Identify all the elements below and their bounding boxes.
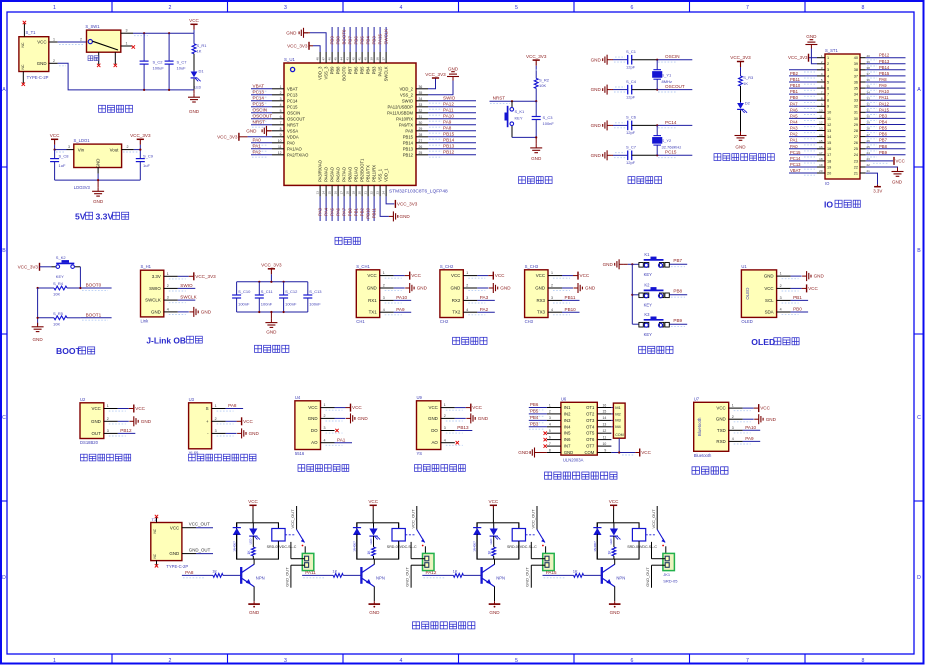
power VCC (relay 1) bbox=[249, 504, 256, 506]
svg-text:SWCLK: SWCLK bbox=[180, 295, 197, 300]
junction bbox=[139, 149, 141, 151]
wire terminal bottom (GND_OUT) bbox=[652, 564, 666, 566]
svg-text:SRD-05VDC-SL-C: SRD-05VDC-SL-C bbox=[387, 545, 417, 549]
svg-text:NRST: NRST bbox=[253, 120, 266, 125]
svg-text:BOOT1: BOOT1 bbox=[86, 312, 102, 317]
svg-text:1: 1 bbox=[466, 271, 468, 275]
svg-text:VCC_3V3: VCC_3V3 bbox=[130, 133, 151, 138]
svg-text:OT7: OT7 bbox=[586, 444, 595, 449]
ground VSS_2 pin35 bbox=[428, 81, 453, 95]
svg-text:SWCLK: SWCLK bbox=[384, 66, 389, 81]
svg-text:13: 13 bbox=[316, 191, 320, 195]
svg-text:PA3: PA3 bbox=[790, 126, 798, 131]
svg-text:VCC: VCC bbox=[451, 273, 460, 278]
power VCC (relay 4) bbox=[610, 504, 617, 506]
svg-text:VCC_OUT: VCC_OUT bbox=[651, 509, 656, 529]
svg-text:D: D bbox=[917, 575, 921, 581]
ground (relay 3) bbox=[494, 601, 496, 604]
svg-text:PA3: PA3 bbox=[318, 207, 323, 216]
svg-text:SWCLK: SWCLK bbox=[384, 29, 389, 45]
svg-text:12: 12 bbox=[603, 429, 607, 433]
svg-text:PA11/USBDM: PA11/USBDM bbox=[387, 110, 413, 115]
svg-text:32: 32 bbox=[854, 105, 858, 109]
svg-text:SWIO: SWIO bbox=[402, 98, 414, 103]
svg-text:VCC: VCC bbox=[495, 273, 505, 278]
svg-text:VBAT: VBAT bbox=[287, 86, 298, 91]
svg-text:VCC_3V3: VCC_3V3 bbox=[397, 202, 418, 207]
svg-text:1: 1 bbox=[551, 271, 553, 275]
svg-text:19: 19 bbox=[827, 165, 831, 169]
svg-text:SWCLK: SWCLK bbox=[145, 298, 161, 303]
wire Vout bbox=[134, 149, 141, 151]
svg-text:20: 20 bbox=[827, 171, 831, 175]
transistor NPN (relay 1) bbox=[240, 567, 242, 584]
wire LED to rail bbox=[193, 79, 195, 90]
svg-text:OT5: OT5 bbox=[586, 431, 595, 436]
MCU S_U1 STM32F103C8T6_LQFP48 bbox=[284, 63, 416, 185]
svg-text:S_Y2: S_Y2 bbox=[662, 138, 673, 143]
svg-text:GND: GND bbox=[535, 286, 545, 291]
svg-text:PB15: PB15 bbox=[879, 71, 890, 76]
svg-text:36: 36 bbox=[854, 80, 858, 84]
svg-text:22: 22 bbox=[370, 191, 374, 195]
svg-text:4: 4 bbox=[732, 437, 734, 441]
svg-text:VCC: VCC bbox=[352, 405, 362, 410]
svg-text:PA12: PA12 bbox=[426, 570, 437, 575]
diode 1N4007 (relay 1) bbox=[236, 523, 238, 528]
svg-text:1N4007: 1N4007 bbox=[232, 541, 236, 552]
svg-text:33: 33 bbox=[854, 99, 858, 103]
svg-text:PB3: PB3 bbox=[372, 36, 377, 45]
svg-text:M4: M4 bbox=[615, 424, 621, 429]
svg-text:30: 30 bbox=[854, 117, 858, 121]
junction bbox=[656, 154, 658, 156]
relay switch (relay 3) bbox=[526, 534, 536, 536]
wire to cap bbox=[613, 124, 628, 126]
LED (relay 4) bbox=[613, 523, 615, 529]
svg-text:PB9: PB9 bbox=[879, 150, 888, 155]
svg-text:14: 14 bbox=[819, 133, 823, 137]
diode 1N4007 (relay 2) bbox=[356, 523, 358, 528]
push button S_K1 KEY bbox=[511, 101, 513, 107]
terminal connector (relay 4) bbox=[663, 553, 675, 570]
svg-text:LED: LED bbox=[609, 538, 613, 545]
svg-text:BOOT0: BOOT0 bbox=[342, 29, 347, 44]
svg-text:GND: GND bbox=[478, 416, 489, 421]
svg-text:PB10: PB10 bbox=[565, 307, 577, 312]
svg-text:PA1/AO: PA1/AO bbox=[287, 146, 303, 151]
display module U1 OLED bbox=[741, 270, 776, 318]
svg-text:VCC: VCC bbox=[50, 133, 60, 138]
svg-text:S_C1: S_C1 bbox=[626, 49, 637, 54]
svg-text:4: 4 bbox=[827, 74, 829, 78]
svg-text:OT3: OT3 bbox=[586, 418, 595, 423]
svg-text:1: 1 bbox=[444, 403, 446, 407]
svg-text:PA2: PA2 bbox=[253, 150, 262, 155]
svg-text:16: 16 bbox=[819, 145, 823, 149]
svg-text:KEY: KEY bbox=[644, 303, 653, 308]
resistor S_R3 1K bbox=[740, 67, 742, 76]
svg-text:KEY: KEY bbox=[515, 115, 523, 120]
capacitor S_C9 1uF bbox=[139, 150, 141, 159]
crystal S_Y2 32.768KHz bbox=[656, 125, 658, 135]
svg-text:28: 28 bbox=[854, 129, 858, 133]
svg-text:38: 38 bbox=[854, 68, 858, 72]
svg-text:37: 37 bbox=[382, 57, 386, 61]
wire COM to VCC bbox=[618, 438, 620, 452]
svg-text:PC14: PC14 bbox=[287, 98, 298, 103]
svg-text:GND: GND bbox=[892, 179, 903, 184]
svg-text:10K: 10K bbox=[53, 292, 60, 297]
svg-text:1: 1 bbox=[126, 41, 128, 45]
svg-text:CH2: CH2 bbox=[440, 319, 449, 324]
wire to net PC15 bbox=[657, 154, 692, 156]
pin header S_ST1 IO expansion bbox=[825, 54, 860, 179]
svg-text:VSS_1: VSS_1 bbox=[378, 168, 383, 182]
svg-text:PC15: PC15 bbox=[287, 104, 298, 109]
svg-text:S_C8: S_C8 bbox=[59, 153, 70, 158]
svg-text:A: A bbox=[917, 87, 921, 93]
svg-text:100nF: 100nF bbox=[285, 302, 297, 307]
capacitor S_C3 100nF bbox=[535, 101, 537, 116]
connector S_CH1 bbox=[356, 270, 379, 318]
svg-text:24: 24 bbox=[854, 153, 858, 157]
svg-text:2: 2 bbox=[215, 417, 217, 421]
svg-text:GND: GND bbox=[428, 416, 438, 421]
power VCC_3V3 bbox=[39, 263, 41, 271]
ground bbox=[97, 180, 99, 187]
svg-text:PA8: PA8 bbox=[405, 128, 413, 133]
svg-text:U2: U2 bbox=[80, 397, 86, 402]
svg-text:100nF: 100nF bbox=[309, 302, 321, 307]
wire R2 to node bbox=[535, 88, 537, 101]
svg-text:NPN: NPN bbox=[616, 575, 625, 580]
svg-text:GND: GND bbox=[489, 610, 500, 615]
svg-text:PB13: PB13 bbox=[403, 146, 414, 151]
svg-text:S_Y1: S_Y1 bbox=[662, 72, 673, 77]
svg-text:IN2: IN2 bbox=[564, 411, 571, 416]
svg-text:PB9: PB9 bbox=[673, 318, 682, 323]
svg-text:OT2: OT2 bbox=[586, 411, 595, 416]
svg-text:VCC: VCC bbox=[896, 159, 905, 164]
svg-text:PB8: PB8 bbox=[879, 144, 888, 149]
svg-text:PA11: PA11 bbox=[443, 108, 454, 113]
capacitor S_C2 100uF bbox=[143, 33, 145, 61]
svg-text:PB9: PB9 bbox=[330, 36, 335, 45]
svg-text:SWIO: SWIO bbox=[443, 96, 456, 101]
svg-text:TYPE-C-2P: TYPE-C-2P bbox=[166, 564, 188, 569]
junction bbox=[79, 287, 81, 289]
svg-text:PC15: PC15 bbox=[665, 150, 677, 155]
wires MCU top pins bbox=[331, 27, 333, 52]
svg-text:GND: GND bbox=[591, 123, 602, 128]
svg-text:PB3: PB3 bbox=[372, 66, 377, 75]
svg-text:NC: NC bbox=[153, 528, 157, 533]
svg-text:16: 16 bbox=[603, 403, 607, 407]
svg-text:24: 24 bbox=[382, 191, 386, 195]
svg-text:BOOT: BOOT bbox=[56, 346, 82, 356]
svg-text:PB12: PB12 bbox=[879, 53, 890, 58]
svg-text:VCC_3V3: VCC_3V3 bbox=[730, 55, 751, 60]
svg-text:11: 11 bbox=[819, 115, 822, 119]
svg-text:2: 2 bbox=[80, 38, 82, 42]
capacitor S_C1 12pF bbox=[627, 55, 629, 65]
svg-text:NPN: NPN bbox=[376, 575, 385, 580]
junction bbox=[656, 124, 658, 126]
svg-text:S_K1: S_K1 bbox=[515, 109, 526, 114]
junction bbox=[143, 32, 145, 34]
wire SW1 to VCC rail bbox=[133, 32, 194, 34]
no-connect T1 top bbox=[155, 515, 158, 518]
svg-text:15: 15 bbox=[827, 141, 831, 145]
svg-text:9: 9 bbox=[604, 448, 606, 452]
svg-text:4: 4 bbox=[167, 308, 169, 312]
caption rain sensor module bbox=[415, 465, 422, 472]
svg-text:21: 21 bbox=[854, 171, 858, 175]
wires MCU bottom pins bbox=[319, 196, 321, 221]
capacitor S_C10 100nF bbox=[236, 282, 238, 295]
wire terminal bottom (GND_OUT) bbox=[411, 564, 425, 566]
no-connect T1 bottom bbox=[155, 564, 158, 567]
svg-text:PA12/USBDP: PA12/USBDP bbox=[387, 104, 413, 109]
svg-text:GND: GND bbox=[806, 34, 817, 39]
svg-text:PB14: PB14 bbox=[879, 65, 890, 70]
svg-text:3: 3 bbox=[215, 429, 217, 433]
svg-text:VCC_OUT: VCC_OUT bbox=[410, 509, 415, 529]
svg-text:35: 35 bbox=[854, 87, 858, 91]
capacitor S_C7 12pF bbox=[627, 151, 629, 161]
svg-text:PB7: PB7 bbox=[879, 138, 888, 143]
svg-text:1: 1 bbox=[549, 403, 551, 407]
relay coil (relay 2) bbox=[398, 523, 400, 529]
svg-text:PA10: PA10 bbox=[443, 114, 454, 119]
wire terminal top bbox=[531, 558, 545, 560]
svg-text:TYPE-C-2P: TYPE-C-2P bbox=[27, 75, 49, 80]
svg-text:VCC: VCC bbox=[609, 499, 619, 504]
wire terminal bottom (GND_OUT) bbox=[291, 564, 305, 566]
svg-text:PC13: PC13 bbox=[790, 162, 801, 167]
svg-text:S_H1: S_H1 bbox=[141, 264, 152, 269]
junction bbox=[535, 136, 537, 138]
ground ST1 pin22 bbox=[866, 167, 898, 172]
push button K1 KEY bbox=[639, 263, 643, 268]
svg-text:PC14: PC14 bbox=[790, 156, 801, 161]
svg-text:PB6: PB6 bbox=[879, 132, 888, 137]
capacitor S_C13 100nF bbox=[307, 282, 309, 295]
svg-text:1uF: 1uF bbox=[143, 163, 150, 168]
svg-text:8: 8 bbox=[549, 448, 551, 452]
wire terminal bottom (GND_OUT) bbox=[531, 564, 545, 566]
ground (relay 4) bbox=[614, 601, 616, 604]
wire to net OSCOUT bbox=[657, 89, 692, 91]
wire filter top rail bbox=[237, 281, 308, 283]
svg-text:U3: U3 bbox=[189, 397, 195, 402]
svg-text:VCC: VCC bbox=[808, 286, 818, 291]
diode 1N4007 (relay 4) bbox=[596, 523, 598, 528]
svg-text:4: 4 bbox=[780, 308, 782, 312]
svg-text:IN3: IN3 bbox=[564, 418, 571, 423]
svg-text:PA8: PA8 bbox=[879, 77, 887, 82]
svg-text:K1: K1 bbox=[644, 252, 650, 257]
ground VSS_3 pin47 bbox=[304, 32, 309, 34]
svg-text:SWIO: SWIO bbox=[149, 286, 161, 291]
transistor NPN (relay 2) bbox=[360, 567, 362, 584]
ground ST1 pin2 bbox=[811, 49, 817, 64]
svg-text:29: 29 bbox=[854, 123, 858, 127]
svg-text:GND: GND bbox=[448, 67, 459, 72]
svg-text:PB10: PB10 bbox=[366, 207, 371, 218]
svg-text:PA10: PA10 bbox=[879, 89, 890, 94]
net label PB8 + wire bbox=[670, 294, 687, 296]
svg-text:VCC: VCC bbox=[37, 40, 46, 45]
power VCC_3V3 bbox=[533, 59, 540, 61]
svg-text:PC14: PC14 bbox=[253, 96, 265, 101]
svg-text:3: 3 bbox=[126, 29, 128, 33]
svg-text:3: 3 bbox=[324, 426, 326, 430]
caption temperature module bbox=[81, 454, 88, 461]
caption reset circuit bbox=[519, 177, 526, 184]
svg-text:PC13: PC13 bbox=[253, 90, 265, 95]
svg-text:PA15: PA15 bbox=[546, 570, 557, 575]
svg-text:10: 10 bbox=[827, 111, 831, 115]
svg-text:2: 2 bbox=[107, 417, 109, 421]
svg-text:PB2/BOOT1: PB2/BOOT1 bbox=[360, 158, 365, 182]
junction bbox=[258, 311, 260, 313]
svg-text:PB7: PB7 bbox=[348, 36, 353, 45]
svg-text:1N4007: 1N4007 bbox=[353, 541, 357, 552]
svg-text:OT6: OT6 bbox=[586, 437, 595, 442]
svg-text:GND_OUT: GND_OUT bbox=[284, 567, 289, 587]
svg-text:19: 19 bbox=[352, 191, 356, 195]
svg-text:NPN: NPN bbox=[256, 575, 265, 580]
svg-text:PB6: PB6 bbox=[354, 36, 359, 45]
svg-text:4: 4 bbox=[383, 308, 385, 312]
svg-text:11: 11 bbox=[603, 435, 607, 439]
svg-text:PB8: PB8 bbox=[336, 36, 341, 45]
svg-text:GND: GND bbox=[531, 156, 542, 161]
driver U6 ULN2003A bbox=[561, 402, 597, 455]
svg-text:PB12: PB12 bbox=[120, 428, 132, 433]
svg-text:VDD_2: VDD_2 bbox=[400, 86, 414, 91]
svg-text:GND: GND bbox=[610, 610, 621, 615]
svg-text:3.3V: 3.3V bbox=[96, 212, 114, 222]
connector S_T1 TYPE-C-2P bbox=[19, 37, 49, 72]
svg-text:SCL: SCL bbox=[765, 298, 774, 303]
power VCC_3V3 VDD_1 pin24 bbox=[386, 196, 394, 204]
svg-text:3: 3 bbox=[466, 296, 468, 300]
svg-text:PB0/AO: PB0/AO bbox=[348, 166, 353, 182]
svg-text:AO: AO bbox=[431, 440, 438, 445]
svg-text:C: C bbox=[2, 415, 6, 421]
svg-text:GND: GND bbox=[286, 30, 297, 35]
svg-text:GND: GND bbox=[814, 274, 825, 279]
net VCC_OUT (relay 2) bbox=[416, 506, 418, 530]
svg-text:S_R2: S_R2 bbox=[539, 77, 550, 82]
svg-text:VCC: VCC bbox=[367, 273, 376, 278]
svg-text:PB8: PB8 bbox=[336, 66, 341, 75]
sensor module U3 YL69 bbox=[189, 403, 212, 449]
LED (relay 1) bbox=[252, 523, 254, 529]
sensor module U2 DS18B20 bbox=[80, 403, 104, 439]
net label BOOT1 + wire bbox=[80, 317, 111, 319]
svg-text:VCC_3V3: VCC_3V3 bbox=[287, 43, 308, 48]
svg-text:GND: GND bbox=[369, 610, 380, 615]
svg-text:PB11: PB11 bbox=[565, 295, 576, 300]
svg-text:VCC_3V3: VCC_3V3 bbox=[526, 54, 547, 59]
power VCC_3V3 ST1 pin1 bbox=[809, 57, 817, 59]
svg-text:17: 17 bbox=[827, 153, 831, 157]
svg-text:PA4: PA4 bbox=[790, 120, 798, 125]
svg-text:S_CH3: S_CH3 bbox=[525, 264, 539, 269]
no-connect IN7 bbox=[544, 444, 547, 447]
terminal connector (relay 3) bbox=[543, 553, 555, 570]
svg-text:10uF: 10uF bbox=[177, 66, 187, 71]
svg-text:B: B bbox=[2, 248, 6, 254]
resistor 1K (relay 3) bbox=[493, 536, 495, 547]
svg-text:4: 4 bbox=[549, 423, 551, 427]
svg-text:1: 1 bbox=[827, 56, 829, 60]
relay coil (relay 3) bbox=[518, 523, 520, 529]
svg-text:PA3: PA3 bbox=[480, 295, 489, 300]
wire terminal top bbox=[291, 558, 305, 560]
svg-text:7: 7 bbox=[827, 93, 829, 97]
caption power circuit bbox=[99, 105, 106, 112]
svg-text:M1: M1 bbox=[615, 405, 621, 410]
svg-text:10: 10 bbox=[819, 109, 823, 113]
svg-text:6: 6 bbox=[827, 87, 829, 91]
svg-text:45: 45 bbox=[334, 57, 338, 61]
svg-text:2: 2 bbox=[444, 414, 446, 418]
wire VCC to relay box bbox=[252, 509, 254, 523]
svg-text:12pF: 12pF bbox=[626, 94, 636, 99]
wire GND rail bbox=[58, 63, 194, 90]
svg-text:S_SW1: S_SW1 bbox=[85, 24, 100, 29]
svg-text:VCC: VCC bbox=[760, 406, 770, 411]
svg-text:VCC: VCC bbox=[170, 525, 179, 530]
svg-text:GND: GND bbox=[735, 145, 746, 150]
svg-text:+: + bbox=[206, 419, 209, 424]
svg-text:AO: AO bbox=[311, 440, 318, 445]
wires ST1 left pins bbox=[789, 69, 817, 71]
svg-text:VCC: VCC bbox=[368, 499, 378, 504]
junction bbox=[618, 451, 620, 453]
svg-text:VCC: VCC bbox=[135, 406, 145, 411]
svg-text:18: 18 bbox=[827, 159, 831, 163]
svg-text:PA2/TX/AO: PA2/TX/AO bbox=[287, 152, 309, 157]
net VCC_OUT (relay 4) bbox=[656, 506, 658, 530]
wire boot rail bbox=[37, 288, 39, 326]
svg-text:GND: GND bbox=[32, 337, 43, 342]
terminal connector (relay 1) bbox=[302, 553, 314, 570]
relay K1 SRD-05VDC-SL-C bbox=[237, 523, 279, 559]
junction bbox=[258, 281, 260, 283]
resistor 1K base (relay 2) bbox=[302, 574, 333, 576]
svg-text:47: 47 bbox=[322, 57, 326, 61]
svg-text:S_C9: S_C9 bbox=[143, 153, 154, 158]
svg-text:PB11: PB11 bbox=[790, 77, 801, 82]
svg-text:3: 3 bbox=[551, 296, 553, 300]
svg-text:44: 44 bbox=[340, 57, 344, 61]
svg-text:PA7/AO: PA7/AO bbox=[342, 166, 347, 182]
wire K2 to BOOT0 node bbox=[79, 267, 81, 288]
svg-text:GND: GND bbox=[766, 417, 777, 422]
ground VSS_1 pin23 bbox=[380, 196, 389, 216]
svg-text:23: 23 bbox=[854, 159, 858, 163]
svg-text:S_R3: S_R3 bbox=[743, 75, 754, 80]
svg-text:TX2: TX2 bbox=[452, 310, 461, 315]
svg-text:PA2: PA2 bbox=[480, 307, 489, 312]
svg-text:PA12: PA12 bbox=[443, 102, 454, 107]
